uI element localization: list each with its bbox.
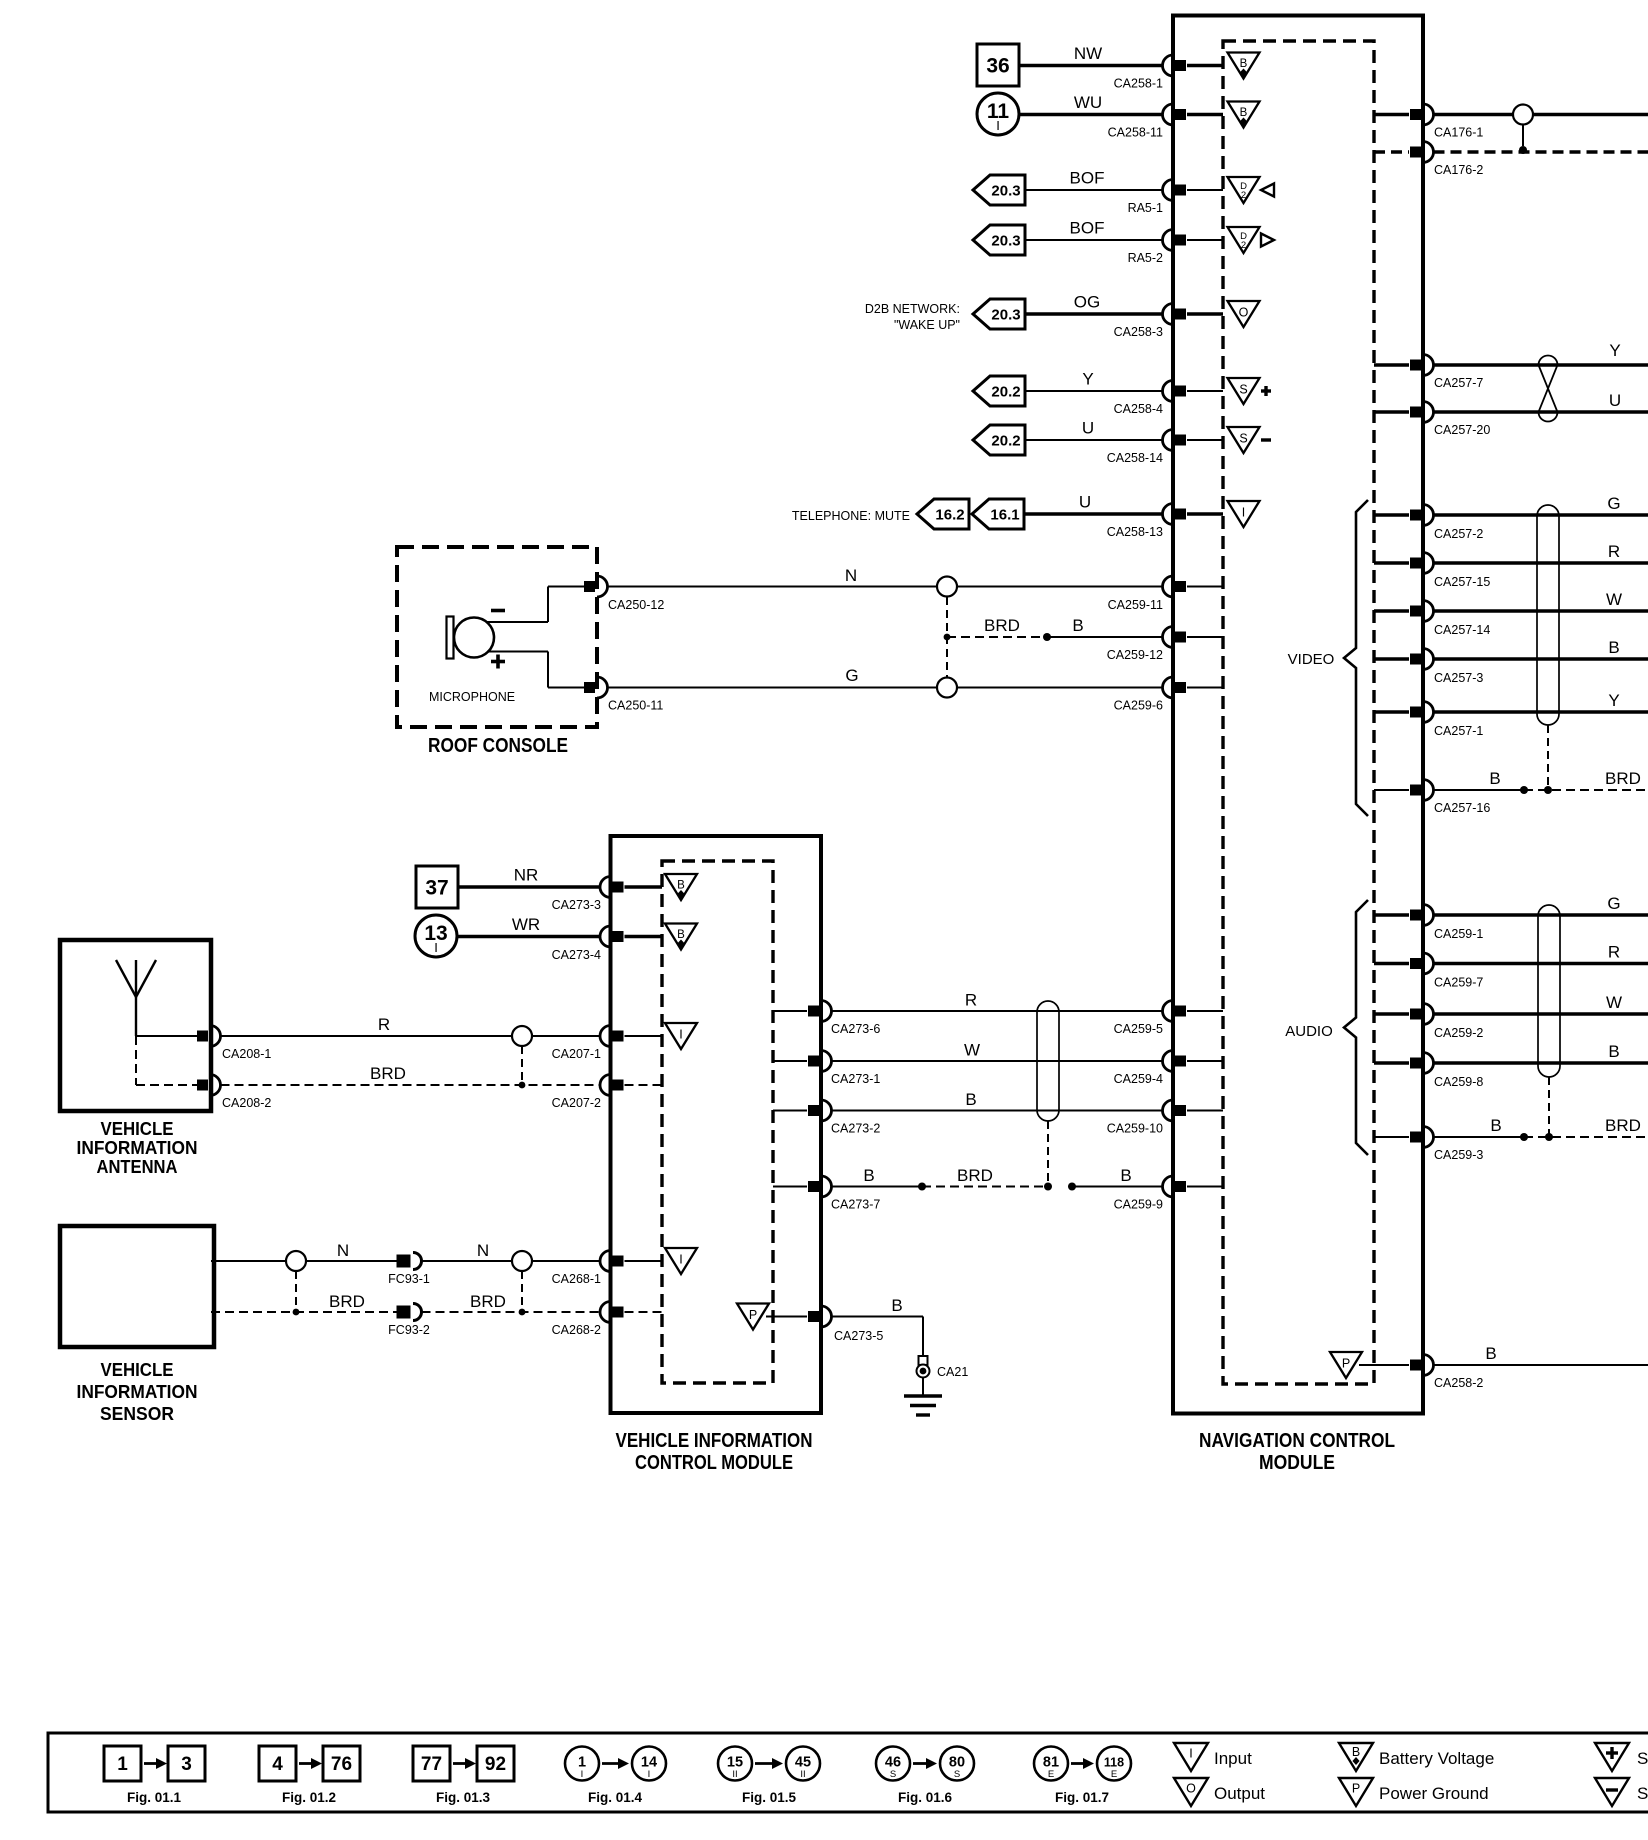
connector CA257-15 (1374, 553, 1490, 590)
svg-text:CA259-8: CA259-8 (1434, 1075, 1483, 1089)
svg-text:RA5-1: RA5-1 (1128, 201, 1163, 215)
wire B (CA258-2) (1434, 1344, 1648, 1365)
splice on N wire (937, 577, 957, 597)
screen drop microphone (dashed) (944, 597, 951, 677)
svg-text:MODULE: MODULE (1259, 1452, 1335, 1474)
svg-text:CA259-9: CA259-9 (1114, 1198, 1163, 1212)
svg-text:20.2: 20.2 (991, 433, 1020, 450)
connector RA5-2 (1128, 230, 1223, 266)
svg-text:U: U (1082, 419, 1094, 438)
wire BRD sensor segment 2 (dashed) (422, 1292, 601, 1312)
connector CA259-3 (1374, 1127, 1483, 1163)
svg-text:CA259-11: CA259-11 (1108, 598, 1163, 612)
battery voltage symbol CA258-1 (1228, 53, 1260, 79)
connector CA273-2 (773, 1100, 880, 1136)
connector CA259-8 (1374, 1053, 1483, 1090)
svg-text:W: W (964, 1041, 980, 1060)
wire B (CA259-8) (1434, 1042, 1648, 1063)
svg-text:CA258-11: CA258-11 (1108, 126, 1163, 140)
input symbol CA258-13 (1228, 501, 1260, 527)
battery voltage symbol CA258-11 (1228, 102, 1260, 128)
svg-text:CA273-4: CA273-4 (552, 948, 601, 962)
svg-text:CA257-15: CA257-15 (1434, 575, 1490, 589)
wire BOF (RA5-1) (1025, 169, 1163, 191)
connector CA257-2 (1374, 505, 1483, 542)
vehicle information sensor label (77, 1359, 198, 1424)
page reference arrow 20.3 (RA5-2) (973, 225, 1025, 255)
antenna internal lead (136, 1035, 198, 1037)
roof console dashed box (397, 547, 597, 727)
wire Y (CA257-7) (1434, 341, 1648, 365)
svg-text:BRD: BRD (1605, 769, 1641, 788)
svg-text:CA259-12: CA259-12 (1107, 648, 1163, 662)
connector CA257-7 (1374, 355, 1483, 391)
svg-text:CA259-6: CA259-6 (1114, 699, 1163, 713)
circuit reference square 37 (416, 866, 458, 908)
D2 symbol left-speaker (1228, 177, 1275, 203)
circuit reference square 36 (977, 44, 1019, 86)
svg-text:WR: WR (512, 915, 540, 934)
svg-text:B: B (1240, 58, 1248, 70)
connector CA259-12 (1107, 627, 1223, 663)
svg-text:P: P (1342, 1357, 1350, 1371)
svg-text:Output: Output (1214, 1784, 1265, 1803)
connector CA273-6 (773, 1001, 880, 1037)
D2B network wake up note (865, 302, 960, 332)
connector CA207-2 (552, 1075, 662, 1111)
connector CA207-1 (552, 1026, 662, 1062)
splice on sensor N wire 2 (512, 1251, 532, 1271)
svg-text:CA258-2: CA258-2 (1434, 1376, 1483, 1390)
legend output symbol (1174, 1778, 1265, 1806)
svg-text:P: P (749, 1308, 757, 1322)
vehicle information antenna label (77, 1118, 198, 1177)
svg-text:BRD: BRD (1605, 1116, 1641, 1135)
wire B (CA257-3) (1434, 638, 1648, 659)
wire N microphone (608, 566, 1163, 587)
svg-text:S: S (890, 1769, 896, 1780)
svg-text:INFORMATION: INFORMATION (77, 1381, 198, 1402)
input symbol CA268-1 (665, 1248, 697, 1274)
svg-text:BRD: BRD (470, 1292, 506, 1311)
connector CA259-9 (1114, 1176, 1223, 1212)
wire microphone positive lead (487, 652, 584, 688)
svg-text:S: S (1637, 1784, 1648, 1803)
svg-text:B: B (1240, 107, 1248, 119)
svg-text:20.2: 20.2 (991, 384, 1020, 401)
wire R (CA273-6 to CA259-5) (832, 991, 1163, 1012)
svg-text:CA258-4: CA258-4 (1114, 402, 1163, 416)
legend fig 01.4 (565, 1747, 666, 1806)
svg-text:E: E (1048, 1769, 1054, 1780)
svg-text:CA257-20: CA257-20 (1434, 423, 1490, 437)
svg-text:77: 77 (421, 1754, 442, 1775)
connector CA259-1 (1374, 905, 1483, 942)
svg-text:AUDIO: AUDIO (1285, 1023, 1333, 1040)
AUDIO group brace (1285, 900, 1368, 1155)
svg-text:16.2: 16.2 (935, 507, 964, 524)
svg-text:BOF: BOF (1070, 219, 1105, 238)
connector CA258-14 (1107, 430, 1223, 466)
svg-text:FC93-2: FC93-2 (388, 1323, 430, 1337)
svg-text:I: I (1242, 506, 1245, 520)
svg-text:VEHICLE INFORMATION: VEHICLE INFORMATION (616, 1430, 813, 1452)
svg-text:CA273-1: CA273-1 (831, 1072, 880, 1086)
wire microphone negative lead (487, 587, 584, 623)
svg-text:ANTENNA: ANTENNA (97, 1156, 178, 1177)
power ground symbol CA258-2 (1330, 1352, 1374, 1378)
svg-text:G: G (845, 666, 858, 685)
svg-text:Fig. 01.7: Fig. 01.7 (1055, 1790, 1109, 1805)
screen negative symbol CA258-14 (1228, 427, 1272, 453)
ground CA21 (904, 1356, 968, 1415)
connector CA176-2 (1374, 142, 1483, 178)
svg-text:OG: OG (1074, 293, 1100, 312)
svg-text:20.3: 20.3 (991, 233, 1020, 250)
svg-text:NW: NW (1074, 44, 1102, 63)
svg-text:Y: Y (1608, 691, 1619, 710)
svg-text:CA258-3: CA258-3 (1114, 325, 1163, 339)
svg-text:118: 118 (1104, 1756, 1124, 1770)
legend screen negative symbol (1595, 1778, 1648, 1806)
svg-text:I: I (581, 1769, 584, 1780)
svg-text:2: 2 (1241, 190, 1246, 201)
splice on G wire (937, 678, 957, 698)
svg-text:BOF: BOF (1070, 169, 1105, 188)
svg-text:CA259-3: CA259-3 (1434, 1148, 1483, 1162)
legend fig 01.2 (259, 1746, 360, 1805)
splice drop CA176 (1519, 125, 1527, 155)
shielded cable symbol VIDEO (1537, 505, 1559, 725)
wire WU (1019, 93, 1163, 115)
svg-text:37: 37 (425, 877, 448, 900)
svg-text:BRD: BRD (370, 1064, 406, 1083)
output symbol CA258-3 (1228, 301, 1260, 327)
svg-text:INFORMATION: INFORMATION (77, 1137, 198, 1158)
legend input symbol (1174, 1743, 1252, 1771)
svg-text:3: 3 (181, 1754, 192, 1775)
svg-text:BRD: BRD (984, 616, 1020, 635)
wire NW (1019, 44, 1163, 66)
svg-text:II: II (732, 1769, 737, 1780)
svg-text:P: P (1352, 1782, 1360, 1796)
svg-text:I: I (996, 118, 1000, 133)
VIDEO group brace (1288, 500, 1368, 816)
wire OG (1025, 293, 1163, 315)
connector CA257-14 (1374, 601, 1490, 638)
svg-text:E: E (1111, 1769, 1117, 1780)
connector CA208-1 (197, 1026, 271, 1062)
svg-text:CA273-3: CA273-3 (552, 898, 601, 912)
svg-text:N: N (845, 566, 857, 585)
connector CA258-4 (1114, 381, 1223, 417)
vehicle information sensor box (60, 1226, 214, 1347)
screen drop sensor 1 (dashed) (293, 1271, 300, 1315)
legend battery voltage symbol (1339, 1743, 1494, 1771)
svg-text:B: B (1489, 769, 1500, 788)
page reference arrow 20.2 (CA258-4) (973, 376, 1025, 406)
connector CA268-1 (552, 1251, 662, 1287)
wire G microphone (608, 666, 1163, 688)
wire NR (458, 866, 600, 888)
legend fig 01.6 (876, 1747, 974, 1806)
svg-text:BRD: BRD (329, 1292, 365, 1311)
connector CA208-2 (197, 1075, 271, 1111)
svg-text:U: U (1609, 391, 1621, 410)
svg-text:Fig. 01.1: Fig. 01.1 (127, 1790, 182, 1805)
splice on sensor N wire 1 (286, 1251, 306, 1271)
svg-text:I: I (1189, 1747, 1192, 1761)
antenna symbol (116, 960, 156, 1036)
wire G (CA257-2) (1434, 494, 1648, 515)
svg-text:Input: Input (1214, 1749, 1252, 1768)
battery voltage symbol CA273-3 (665, 874, 697, 900)
svg-text:CA257-2: CA257-2 (1434, 527, 1483, 541)
svg-text:CA273-7: CA273-7 (831, 1198, 880, 1212)
inline connector FC93-2 (388, 1304, 430, 1338)
svg-text:4: 4 (272, 1754, 283, 1775)
svg-text:Fig. 01.4: Fig. 01.4 (588, 1790, 643, 1805)
vehicle information control module label (616, 1430, 813, 1474)
wire B BRD B (CA273-7 to CA259-9) (832, 1166, 1163, 1191)
svg-text:CA257-1: CA257-1 (1434, 724, 1483, 738)
roof console label (428, 735, 568, 757)
connector RA5-1 (1128, 180, 1223, 216)
svg-text:W: W (1606, 590, 1622, 609)
legend box (48, 1733, 1648, 1812)
legend power ground symbol (1339, 1778, 1489, 1806)
svg-text:W: W (1606, 993, 1622, 1012)
wire R (CA257-15) (1434, 542, 1648, 563)
connector CA259-10 (1107, 1100, 1223, 1136)
wire B (CA273-2 to CA259-10) (832, 1090, 1163, 1111)
screen positive symbol CA258-4 (1228, 378, 1272, 404)
vehicle information control module inner dashed box (662, 861, 773, 1383)
svg-text:O: O (1186, 1782, 1196, 1796)
svg-text:CA257-14: CA257-14 (1434, 623, 1490, 637)
svg-text:Y: Y (1082, 370, 1093, 389)
shielded cable symbol AUDIO (1538, 905, 1560, 1077)
svg-text:D2B NETWORK:: D2B NETWORK: (865, 302, 960, 316)
svg-text:CA258-1: CA258-1 (1114, 77, 1163, 91)
svg-text:G: G (1607, 494, 1620, 513)
svg-text:CA257-16: CA257-16 (1434, 801, 1490, 815)
svg-text:B: B (1120, 1166, 1131, 1185)
svg-text:CA259-5: CA259-5 (1114, 1022, 1163, 1036)
circuit reference circle 13 (415, 915, 457, 957)
svg-text:CA268-1: CA268-1 (552, 1272, 601, 1286)
svg-text:NR: NR (514, 866, 539, 885)
power ground symbol CA273-5 (737, 1304, 807, 1330)
connector CA257-20 (1374, 402, 1490, 438)
connector CA268-2 (552, 1302, 662, 1338)
svg-text:BRD: BRD (957, 1166, 993, 1185)
wire N sensor segment 2 (422, 1241, 601, 1261)
screen drop sensor 2 (dashed) (519, 1271, 526, 1315)
connector CA250-11 (584, 677, 663, 713)
svg-text:TELEPHONE: MUTE: TELEPHONE: MUTE (792, 509, 910, 523)
wire B BRD (CA257-16) (1434, 769, 1648, 794)
navigation control module label (1199, 1430, 1395, 1474)
wire B to ground CA21 (832, 1296, 924, 1356)
svg-text:I: I (648, 1769, 651, 1780)
wire BRD to B (CA259-12) (947, 616, 1163, 641)
wire W (CA273-1 to CA259-4) (832, 1041, 1163, 1062)
wire BOF (RA5-2) (1025, 219, 1163, 241)
svg-text:CA258-14: CA258-14 (1107, 451, 1163, 465)
svg-text:92: 92 (485, 1754, 506, 1775)
svg-text:Fig. 01.3: Fig. 01.3 (436, 1790, 491, 1805)
svg-text:B: B (1072, 616, 1083, 635)
wire G (CA259-1) (1434, 894, 1648, 915)
battery voltage symbol CA273-4 (665, 924, 697, 950)
svg-text:B: B (1352, 1745, 1360, 1759)
connector CA258-3 (1114, 304, 1223, 340)
svg-text:20.3: 20.3 (991, 307, 1020, 324)
connector CA258-13 (1107, 504, 1223, 540)
circuit reference circle 11 (977, 93, 1019, 135)
navigation control module inner dashed box (1223, 41, 1374, 1384)
connector CA250-12 (584, 576, 664, 612)
svg-text:B: B (677, 880, 685, 892)
connector CA258-1 (1114, 55, 1223, 91)
svg-text:B: B (1490, 1116, 1501, 1135)
svg-text:U: U (1079, 493, 1091, 512)
wire U (CA258-14) (1025, 419, 1163, 441)
svg-text:CA207-1: CA207-1 (552, 1047, 601, 1061)
svg-text:CA273-2: CA273-2 (831, 1122, 880, 1136)
svg-text:B: B (863, 1166, 874, 1185)
connector CA176-1 (1374, 104, 1483, 140)
svg-text:CA257-3: CA257-3 (1434, 671, 1483, 685)
page reference arrow 20.3 (CA258-3) (973, 299, 1025, 329)
svg-text:NAVIGATION CONTROL: NAVIGATION CONTROL (1199, 1430, 1395, 1452)
svg-text:N: N (337, 1241, 349, 1260)
svg-text:MICROPHONE: MICROPHONE (429, 690, 515, 704)
connector CA259-6 (1114, 677, 1223, 713)
wire W (CA257-14) (1434, 590, 1648, 611)
svg-text:Y: Y (1609, 341, 1620, 360)
connector CA259-7 (1374, 953, 1483, 990)
input symbol CA207-1 (665, 1023, 697, 1049)
legend screen positive symbol (1595, 1743, 1648, 1771)
svg-text:CA207-2: CA207-2 (552, 1096, 601, 1110)
svg-text:76: 76 (331, 1754, 352, 1775)
legend fig 01.7 (1034, 1747, 1131, 1806)
svg-text:CA250-11: CA250-11 (608, 699, 663, 713)
page reference arrow 20.3 (RA5-1) (973, 175, 1025, 205)
svg-text:CONTROL MODULE: CONTROL MODULE (635, 1452, 793, 1474)
svg-text:I: I (679, 1028, 682, 1042)
shield drop VICM-NAV (dashed) (1044, 1121, 1052, 1191)
connector CA258-2 (1374, 1355, 1483, 1391)
svg-text:R: R (1608, 943, 1620, 962)
svg-text:Battery Voltage: Battery Voltage (1379, 1749, 1494, 1768)
svg-text:CA258-13: CA258-13 (1107, 525, 1163, 539)
svg-text:20.3: 20.3 (991, 183, 1020, 200)
wire U (CA257-20) (1434, 391, 1648, 412)
page reference arrow 16.1 (972, 499, 1024, 529)
svg-text:16.1: 16.1 (990, 507, 1019, 524)
svg-text:CA268-2: CA268-2 (552, 1323, 601, 1337)
svg-text:O: O (1239, 306, 1249, 320)
vehicle information control module box (611, 836, 822, 1413)
svg-text:S: S (1637, 1749, 1648, 1768)
svg-text:B: B (1608, 638, 1619, 657)
vehicle information antenna box (60, 940, 211, 1111)
wire CA176-2 (dashed) (1434, 150, 1648, 153)
antenna internal screen lead (dashed) (136, 1036, 198, 1085)
navigation control module box (1173, 16, 1423, 1414)
svg-text:CA273-6: CA273-6 (831, 1022, 880, 1036)
svg-text:"WAKE UP": "WAKE UP" (894, 318, 960, 332)
svg-text:WU: WU (1074, 93, 1102, 112)
svg-text:CA208-1: CA208-1 (222, 1047, 271, 1061)
svg-text:1: 1 (117, 1754, 128, 1775)
svg-text:CA259-4: CA259-4 (1114, 1072, 1163, 1086)
svg-text:VEHICLE: VEHICLE (101, 1118, 174, 1139)
legend fig 01.1 (104, 1746, 205, 1805)
svg-text:Fig. 01.5: Fig. 01.5 (742, 1790, 797, 1805)
svg-text:B: B (1485, 1344, 1496, 1363)
svg-text:ROOF CONSOLE: ROOF CONSOLE (428, 735, 568, 757)
svg-text:I: I (434, 940, 438, 955)
connector CA273-3 (552, 877, 662, 913)
svg-text:II: II (800, 1769, 805, 1780)
svg-text:CA259-10: CA259-10 (1107, 1122, 1163, 1136)
wire N sensor segment 1 (211, 1241, 405, 1261)
svg-text:VEHICLE: VEHICLE (101, 1359, 174, 1380)
svg-text:R: R (965, 991, 977, 1010)
svg-text:N: N (477, 1241, 489, 1260)
connector CA258-11 (1108, 104, 1223, 140)
wire U (CA258-13) (1024, 493, 1163, 515)
wire R (CA259-7) (1434, 943, 1648, 964)
svg-text:Fig. 01.2: Fig. 01.2 (282, 1790, 336, 1805)
svg-text:CA257-7: CA257-7 (1434, 376, 1483, 390)
wire BRD antenna (dashed) (221, 1064, 601, 1085)
svg-text:CA250-12: CA250-12 (608, 598, 664, 612)
wire BRD sensor segment 1 (dashed) (211, 1292, 405, 1312)
svg-text:VIDEO: VIDEO (1288, 651, 1335, 668)
wire Y (CA258-4) (1025, 370, 1163, 392)
wire CA176-1 (1434, 113, 1648, 116)
splice on R wire (512, 1026, 532, 1046)
splice on CA176-1 wire (1513, 105, 1533, 125)
connector CA257-16 (1374, 780, 1490, 816)
svg-text:SENSOR: SENSOR (100, 1403, 174, 1424)
microphone (429, 611, 515, 705)
D2 symbol right-speaker (1228, 227, 1275, 253)
legend fig 01.5 (718, 1747, 820, 1806)
connector CA273-1 (773, 1051, 880, 1087)
shielded cable symbol VICM-NAV (1037, 1001, 1059, 1121)
svg-text:R: R (1608, 542, 1620, 561)
svg-text:B: B (677, 929, 685, 941)
svg-text:I: I (679, 1253, 682, 1267)
shield drop VIDEO (dashed) (1544, 725, 1552, 794)
connector CA259-2 (1374, 1004, 1483, 1041)
svg-text:G: G (1607, 894, 1620, 913)
twisted pair symbol CA257-7/20 (1539, 356, 1558, 422)
svg-text:S: S (954, 1769, 960, 1780)
connector CA273-4 (552, 926, 662, 962)
legend fig 01.3 (413, 1746, 514, 1805)
connector CA259-5 (1114, 1001, 1223, 1037)
svg-text:S: S (1239, 383, 1247, 397)
shield drop AUDIO (dashed) (1545, 1077, 1553, 1141)
telephone mute note (792, 509, 910, 523)
